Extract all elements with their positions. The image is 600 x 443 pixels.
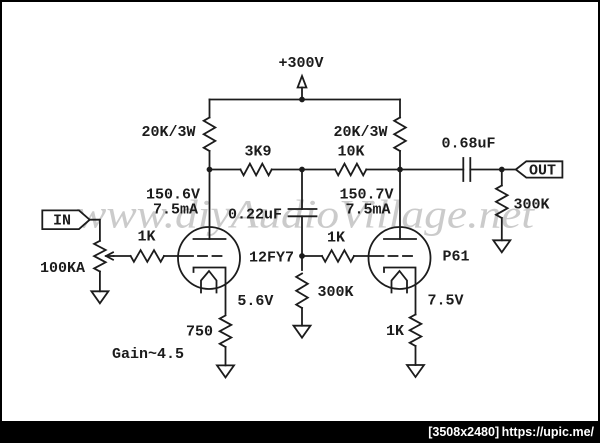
wire right branch top [399,100,401,118]
resistor R1 1K grid V1 [131,250,164,262]
node OUT junction dot [499,167,505,173]
node A junction dot [207,167,213,173]
resistor R 10K [335,164,366,176]
port tag OUT [516,161,563,177]
tube V1 plate bar [194,238,226,240]
ground input pot [91,291,108,303]
wire C1 to grid node [301,216,303,256]
wire IN to pot [90,220,100,241]
resistor R2 1K grid V2 [322,250,354,262]
tube V1 heater [201,271,217,293]
wire node B to C1 [301,170,303,210]
wire 300K grid to ground [301,308,303,326]
port tag IN [42,210,89,229]
resistor R 300K output [496,186,508,219]
potentiometer R 100KA [94,241,106,272]
node B junction dot [299,167,305,173]
resistor R 300K grid [296,274,308,309]
wire 3K9 to node B [272,169,302,171]
wire plate V2 [399,170,401,240]
wire out node to tag [502,169,516,171]
wire 750 to ground [225,347,227,365]
ground grid V2 [294,326,311,338]
resistor R 20K/3W left [204,118,216,152]
wire top rail [210,99,401,101]
wire left branch top [209,100,211,118]
power arrow +300V [298,76,307,88]
wire 10K to node C [366,169,400,171]
tube V2 cathode [384,268,416,315]
tube V2 grid dashes [389,255,398,257]
tube V1 cathode [194,268,226,315]
tube V2 heater [392,271,408,293]
wire 300K to ground [501,218,503,240]
tube V2 envelope [369,227,431,289]
wire out node down [501,170,503,186]
resistor R 1K cathode V2 [410,315,422,347]
wire wiper to R1 [114,255,131,257]
wire R2 to grid V2 [354,255,384,257]
grid node junction dot [299,253,305,259]
ground cathode V1 [217,365,234,377]
node C junction dot [397,167,403,173]
wire node C to C2 [400,169,463,171]
capacitor C1 0.22uF [289,208,317,210]
tube V1 grid dashes [198,255,207,257]
wire node B to 10K [302,169,335,171]
tube V1 envelope [178,227,240,289]
resistor R 750 [220,316,232,348]
wire plate V1 [209,170,211,240]
capacitor C2 0.68uF [462,158,464,181]
wire R1 to grid V1 [164,255,193,257]
pot wiper arrow [106,252,113,259]
resistor R 3K9 [241,164,272,176]
wire 1K cathode to ground [415,346,417,365]
wire grid node down [301,256,303,270]
ground output [493,240,510,252]
footer bar [0,421,600,443]
wire right branch bottom [399,151,401,170]
resistor R 20K/3W right [394,118,406,152]
junction dot top rail [299,97,305,103]
wire node A to 3K9 [210,169,241,171]
wire left branch bottom [209,151,211,170]
tube V2 plate bar [384,238,416,240]
ground cathode V2 [407,365,424,377]
wire grid node to R2 [302,255,322,257]
wire C2 to out node [470,169,502,171]
wire pot to ground [99,272,101,292]
